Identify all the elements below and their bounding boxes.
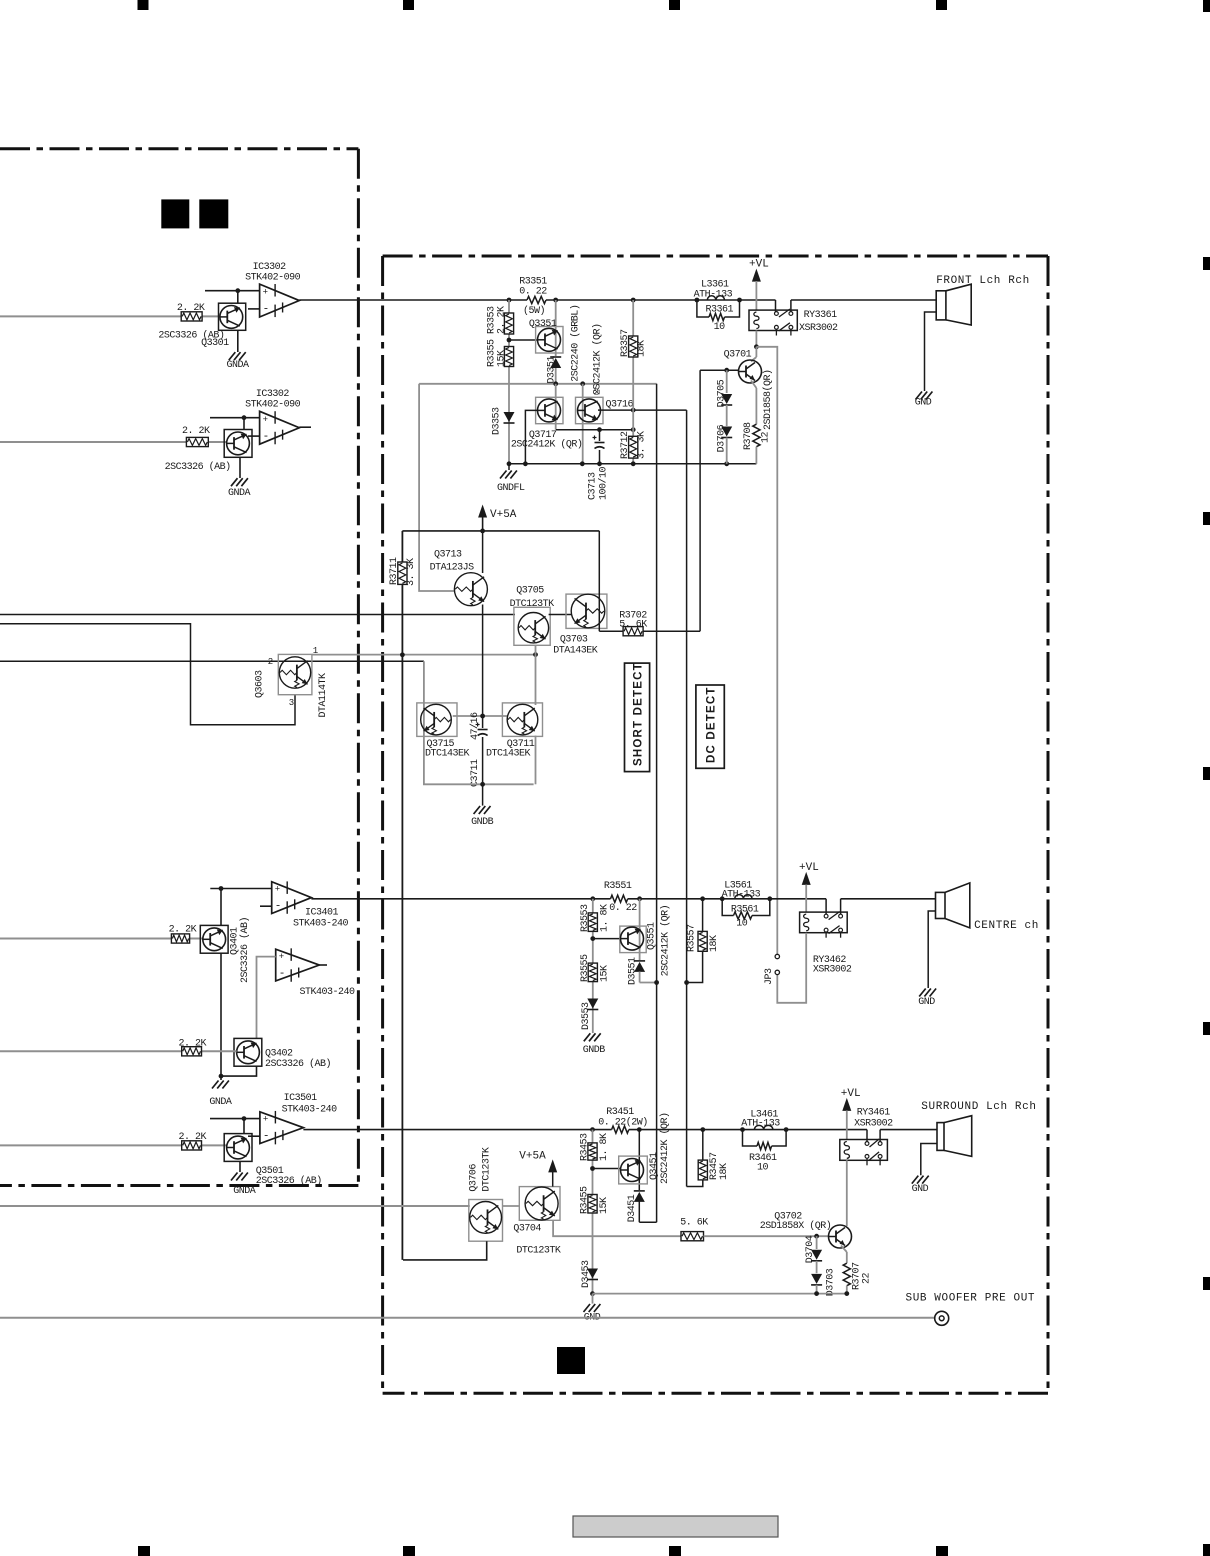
- svg-text:GNDA: GNDA: [233, 1186, 256, 1197]
- wire Q3717 base to bottom rail: [525, 410, 537, 463]
- svg-text:Q3703: Q3703: [560, 635, 588, 646]
- transistor Q3551 2SC2412K(QR): [639, 899, 641, 960]
- svg-text:R3553: R3553: [580, 904, 591, 932]
- svg-text:2SC2412K (QR): 2SC2412K (QR): [592, 323, 604, 395]
- node D3705 chain bottom: [724, 461, 729, 466]
- wire Q3706 collector to protect bus: [403, 1241, 487, 1260]
- svg-text:-: -: [263, 431, 270, 443]
- node rail/L3561 left: [720, 896, 725, 901]
- node Q3716/R3712: [631, 408, 636, 413]
- resistor R3561 10 (parallel): [722, 899, 733, 916]
- wire relay coil to Q3701 collector: [755, 331, 757, 347]
- svg-text:R3451: R3451: [606, 1107, 634, 1118]
- ground GND (centre speaker): [919, 989, 926, 997]
- svg-text:STK402-090: STK402-090: [245, 400, 301, 411]
- resistor R3711 3.3K drop: [401, 531, 403, 562]
- wire input centre: [0, 938, 171, 940]
- op-amp minus stub (IC3401): [260, 905, 272, 907]
- svg-text:DTC143EK: DTC143EK: [425, 749, 470, 760]
- svg-text:R3712: R3712: [620, 431, 631, 459]
- svg-text:+VL: +VL: [841, 1088, 861, 1100]
- svg-text:47/16: 47/16: [469, 712, 481, 740]
- node rail/D3351: [553, 298, 558, 303]
- wire base tap to Q3451: [593, 1168, 621, 1170]
- svg-text:GNDA: GNDA: [209, 1097, 232, 1108]
- wire speaker to ground: [925, 312, 937, 391]
- wire Q3706 to Q3704: [503, 1205, 520, 1207]
- wire Q3702 emitter + resistor R3707 22: [841, 1246, 847, 1253]
- svg-text:XSR3002: XSR3002: [813, 965, 852, 976]
- diode D3553: [587, 999, 598, 1009]
- wire input surround: [0, 1144, 182, 1146]
- capacitor C3711 47/16: [482, 716, 484, 728]
- surround output rail: [593, 1129, 612, 1131]
- resistor 2.2K (surround input): [182, 1141, 202, 1150]
- resistor R3553 1.8K: [588, 913, 597, 932]
- resistor 2.2K (front input): [181, 312, 202, 321]
- registration marks top edge: [138, 0, 149, 10]
- svg-text:GNDB: GNDB: [583, 1045, 606, 1056]
- speaker FRONT: [936, 291, 946, 320]
- svg-text:3. 3K: 3. 3K: [637, 431, 648, 459]
- svg-text:15K: 15K: [599, 1197, 610, 1214]
- svg-text:Q3704: Q3704: [513, 1224, 541, 1235]
- svg-text:DTC143EK: DTC143EK: [486, 749, 531, 760]
- svg-text:0. 22(2W): 0. 22(2W): [598, 1116, 648, 1128]
- wire Q3603 pin1 to detect node: [312, 654, 536, 656]
- svg-text:XSR3002: XSR3002: [799, 323, 838, 334]
- wire input front-L: [0, 315, 181, 317]
- node V+5A/Q3713: [480, 529, 485, 534]
- node rail/R3553: [590, 896, 595, 901]
- node GNDB tap: [480, 782, 485, 787]
- svg-text:2. 2K: 2. 2K: [179, 1132, 207, 1143]
- ground GNDB (front): [482, 784, 484, 805]
- svg-text:10: 10: [714, 322, 726, 333]
- svg-text:Q3551: Q3551: [647, 922, 658, 950]
- node Q3301/IC3302 +in: [235, 288, 240, 293]
- transistor Q3716 2SC2412K(QR): [576, 397, 604, 423]
- svg-text:SUB WOOFER PRE OUT: SUB WOOFER PRE OUT: [906, 1293, 1036, 1305]
- svg-text:Q3716: Q3716: [606, 400, 634, 411]
- svg-text:18K: 18K: [637, 340, 648, 357]
- capacitor C3713 100/10: [599, 430, 601, 441]
- svg-text:Q3713: Q3713: [434, 550, 462, 561]
- svg-text:GNDFL: GNDFL: [497, 483, 525, 494]
- resistor R3461 10 (parallel): [743, 1130, 758, 1146]
- node C3713 bottom: [597, 461, 602, 466]
- transistor Q3603 DTA114TK: [278, 654, 312, 694]
- svg-text:0. 22: 0. 22: [519, 287, 547, 298]
- svg-text:R3551: R3551: [604, 881, 632, 892]
- svg-text:+: +: [263, 1115, 268, 1125]
- svg-text:GNDA: GNDA: [227, 360, 250, 371]
- svg-text:+: +: [263, 288, 268, 298]
- svg-text:D3353: D3353: [492, 407, 503, 435]
- svg-text:+VL: +VL: [799, 862, 819, 874]
- wire D3451 to short-detect drop: [639, 1221, 656, 1223]
- wire IC3302 output to front rail: [299, 299, 509, 301]
- svg-text:SURROUND Lch Rch: SURROUND Lch Rch: [921, 1101, 1036, 1113]
- ground GNDA (front R): [231, 478, 238, 486]
- svg-text:C3711: C3711: [470, 759, 481, 787]
- svg-text:18K: 18K: [719, 1163, 730, 1180]
- diode D3551: [634, 962, 645, 972]
- svg-text:D3704: D3704: [805, 1235, 816, 1263]
- resistor 2.2K (Q3402 input): [182, 1047, 202, 1056]
- wire Q3501 to IC3501 +in: [210, 1118, 260, 1120]
- node R3712 mid: [631, 427, 636, 432]
- node short-detect centre: [654, 980, 659, 985]
- svg-text:D3705: D3705: [717, 379, 728, 407]
- node R3707 bottom: [844, 1291, 849, 1296]
- long detect line to Q3705: [0, 614, 515, 616]
- svg-text:D3453: D3453: [581, 1260, 592, 1288]
- svg-text:100/10: 100/10: [598, 466, 610, 500]
- svg-text:2. 2K: 2. 2K: [497, 306, 508, 334]
- dc-detect drop wire: [686, 410, 688, 1186]
- wire relay contact to speaker (surround): [879, 1130, 881, 1142]
- wire relay coil return via JP3: [777, 933, 806, 1003]
- op-amp minus stub (IC3501): [248, 1135, 260, 1137]
- svg-text:Q3351: Q3351: [529, 319, 557, 330]
- resistor R3353 2.2K: [504, 313, 513, 334]
- wire base tap to Q3551: [593, 938, 621, 940]
- wire relay coil to Q3702 collector: [846, 1160, 848, 1226]
- svg-text:V+5A: V+5A: [519, 1150, 546, 1162]
- ground GNDB (centre): [584, 1033, 591, 1041]
- detect feed to Q3706: [0, 1205, 470, 1207]
- wire Q3705 emitter down: [535, 645, 537, 654]
- svg-text:2SC2240 (GRBL): 2SC2240 (GRBL): [570, 305, 582, 382]
- label box SHORT DETECT: [625, 663, 650, 772]
- transistor 2SC3326(AB) (front R): [224, 430, 252, 458]
- node rail/L3561 right: [767, 896, 772, 901]
- transistor Q3717 2SC2412K(QR): [555, 384, 557, 430]
- svg-text:ATH-133: ATH-133: [741, 1119, 780, 1130]
- wire R3357 drop: [632, 300, 634, 336]
- resistor R3712 3.3K: [632, 410, 634, 436]
- power-amp block border (right dash-dot box): [381, 256, 384, 1393]
- centre output rail: [593, 898, 611, 900]
- node GNDA centre: [219, 1074, 224, 1079]
- wire rail into relay contact (surround): [866, 1130, 868, 1142]
- svg-text:2SC3326 (AB): 2SC3326 (AB): [256, 1175, 322, 1187]
- transistor Q3706 DTC123TK: [469, 1200, 503, 1242]
- svg-text:DTC123TK: DTC123TK: [482, 1147, 493, 1192]
- svg-text:DTA143EK: DTA143EK: [553, 646, 598, 657]
- node rail/L3461 left: [740, 1127, 745, 1132]
- node surround gnd rail: [590, 1291, 595, 1296]
- transistor Q3705 DTC123TK: [514, 607, 550, 645]
- node R3712 bottom: [631, 461, 636, 466]
- wire rail into relay contact (centre): [825, 899, 827, 914]
- wire IC3501 output to surround rail: [303, 1129, 592, 1131]
- wire node down to Q3501: [243, 1119, 245, 1134]
- svg-text:10: 10: [736, 918, 748, 929]
- svg-text:2SD1858X (QR): 2SD1858X (QR): [760, 1220, 832, 1232]
- wire Q3301 collector to op-amp input: [205, 290, 260, 292]
- node rail/L3461 right: [784, 1127, 789, 1132]
- wire Q3401 to IC3401 +in: [210, 888, 271, 890]
- wire +in down to Q3402: [257, 957, 276, 1039]
- wire Q3716 base drop: [582, 384, 584, 464]
- svg-text:R3555: R3555: [580, 954, 591, 982]
- svg-text:FRONT Lch Rch: FRONT Lch Rch: [936, 275, 1030, 287]
- diode chain D3704 D3703: [816, 1236, 818, 1249]
- svg-text:ATH-133: ATH-133: [694, 290, 733, 301]
- node rail/D3551: [637, 896, 642, 901]
- wire node down to transistor: [243, 418, 245, 430]
- svg-text:GND: GND: [918, 997, 935, 1008]
- registration marks bottom edge: [138, 1546, 150, 1556]
- transistor Q3715 DTC143EK: [417, 703, 457, 737]
- node Q3711 collector riser: [533, 652, 538, 657]
- wire mute line to Q3603 base (pin2): [0, 660, 424, 662]
- svg-text:1. 8K: 1. 8K: [599, 1133, 610, 1161]
- wire Q3402 emitter to GNDA node: [221, 1066, 257, 1076]
- node D3703 bottom: [814, 1291, 819, 1296]
- node L3361 right: [737, 298, 742, 303]
- node C3711 base tap: [480, 714, 485, 719]
- svg-text:+: +: [263, 415, 268, 425]
- resistor R3455 15K: [588, 1195, 597, 1214]
- ground GND (front speaker): [916, 392, 923, 400]
- svg-text:R3711: R3711: [389, 557, 400, 585]
- V+5A supply arrow: [478, 505, 487, 518]
- svg-text:Q3603: Q3603: [255, 670, 266, 698]
- svg-text:GND: GND: [915, 398, 932, 409]
- op-amp output stub (centre R): [319, 964, 327, 966]
- op-amp minus stub (front R): [248, 435, 260, 437]
- node base tap surround: [590, 1166, 595, 1171]
- inductor L3361 ATH-133: [707, 296, 724, 300]
- svg-text:+: +: [279, 952, 284, 962]
- svg-text:Q3705: Q3705: [516, 586, 544, 597]
- svg-text:2SC2412K (QR): 2SC2412K (QR): [660, 905, 672, 977]
- svg-text:STK402-090: STK402-090: [245, 272, 301, 283]
- svg-text:Q3706: Q3706: [469, 1164, 480, 1192]
- inductor L3561 ATH-133: [735, 895, 752, 899]
- svg-text:IC3401: IC3401: [305, 908, 339, 919]
- wire rail into relay contact: [775, 300, 777, 312]
- svg-text:R3557: R3557: [687, 924, 698, 952]
- node +in (front R): [242, 415, 247, 420]
- svg-text:Q3701: Q3701: [724, 349, 752, 360]
- wire GNDA stub: [220, 1076, 222, 1080]
- inductor L3461 ATH-133: [754, 1125, 773, 1129]
- transistor Q3451 2SC2412K(QR): [638, 1130, 640, 1190]
- svg-text:R3357: R3357: [620, 329, 631, 357]
- resistor R3457 18K drop: [702, 1130, 704, 1161]
- svg-text:STK403-240: STK403-240: [293, 919, 349, 930]
- svg-text:D3451: D3451: [627, 1194, 638, 1222]
- front local ground rail: [509, 463, 756, 465]
- svg-text:DC DETECT: DC DETECT: [706, 686, 718, 763]
- svg-text:3. 3K: 3. 3K: [406, 558, 417, 586]
- op-amp STK403-240 (centre R half): [276, 949, 320, 981]
- wire R3557 to dc-detect drop: [687, 951, 703, 982]
- ground GND (surround): [592, 1294, 594, 1304]
- svg-text:GND: GND: [912, 1184, 929, 1195]
- svg-text:12: 12: [761, 431, 772, 443]
- svg-text:2SC3326 (AB): 2SC3326 (AB): [239, 917, 251, 983]
- node rail/R3453: [590, 1127, 595, 1132]
- svg-text:IC3501: IC3501: [284, 1093, 318, 1104]
- surround protect ground wire: [593, 1293, 847, 1295]
- svg-text:2SD1858(QR): 2SD1858(QR): [762, 369, 774, 430]
- wire IC3401 output to centre rail: [311, 898, 592, 900]
- node rail/R3557: [700, 896, 705, 901]
- wire R3453 chain: [592, 1130, 594, 1143]
- ground GNDA (surround): [231, 1173, 238, 1181]
- transistor Q3501 2SC3326(AB): [224, 1134, 252, 1162]
- resistor R3355 15K: [504, 347, 513, 367]
- resistor R3555 15K: [588, 963, 597, 982]
- wire Q3301 emitter to ground: [237, 330, 239, 352]
- svg-text:2. 2K: 2. 2K: [177, 303, 205, 314]
- wire speaker to ground (centre): [928, 911, 935, 988]
- svg-text:2: 2: [594, 388, 599, 398]
- diode D3453: [587, 1269, 598, 1279]
- wire Q3401 emitter down to GNDA node: [220, 953, 222, 1076]
- speaker SURROUND: [937, 1123, 944, 1151]
- transistor Q3713 DTA123JS: [482, 531, 484, 573]
- svg-text:GNDB: GNDB: [471, 817, 494, 828]
- node rail/R3357: [631, 298, 636, 303]
- svg-text:22: 22: [862, 1272, 873, 1284]
- diode D3353: [504, 412, 515, 422]
- ground GNDA (Q3301): [229, 352, 236, 360]
- svg-text:2. 2K: 2. 2K: [179, 1039, 207, 1050]
- svg-text:10: 10: [757, 1162, 769, 1173]
- transistor Q3704 DTC123TK: [519, 1187, 560, 1221]
- wire relay contact to speaker (centre): [840, 899, 842, 914]
- wire Q3701 collector stub: [755, 347, 757, 357]
- svg-text:IC3302: IC3302: [253, 262, 287, 273]
- svg-text:STK403-240: STK403-240: [300, 987, 356, 998]
- svg-text:-: -: [263, 1131, 270, 1143]
- node Q3716 base rail: [580, 461, 585, 466]
- svg-text:C3713: C3713: [588, 472, 599, 500]
- svg-text:GNDA: GNDA: [228, 488, 251, 499]
- svg-text:ATH-133: ATH-133: [722, 890, 761, 901]
- transistor Q3301 2SC3326(AB): [219, 303, 246, 330]
- node IC3401 +in: [219, 886, 224, 891]
- wire to op-amp input (front R): [210, 417, 260, 419]
- transistor Q3711 DTC143EK: [502, 703, 542, 737]
- svg-text:D3703: D3703: [826, 1268, 837, 1296]
- label box DC DETECT: [696, 685, 724, 768]
- node Q3717 base rail: [523, 461, 528, 466]
- svg-text:2. 2K: 2. 2K: [182, 426, 210, 437]
- svg-text:D3551: D3551: [628, 957, 639, 985]
- resistor 2.2K (centre input): [171, 934, 189, 943]
- ground GNDFL: [508, 464, 510, 470]
- subwoofer line: [0, 1317, 935, 1319]
- diode D3451: [634, 1192, 645, 1202]
- wire Q3704 output to 5.6K: [553, 1220, 681, 1236]
- svg-text:D3351: D3351: [547, 356, 558, 384]
- svg-text:JP3: JP3: [764, 968, 775, 985]
- wire IC3302-2 output stub: [299, 426, 311, 428]
- node base/D3705: [724, 368, 729, 373]
- svg-text:CENTRE ch: CENTRE ch: [974, 920, 1039, 932]
- resistor R3551 0.22: [611, 895, 628, 902]
- svg-text:1. 8K: 1. 8K: [600, 904, 611, 932]
- op-amp IC3401 STK403-240: [272, 882, 312, 914]
- svg-text:Q3402: Q3402: [265, 1049, 293, 1060]
- node L3361 left: [695, 298, 700, 303]
- registration marks right edge: [1203, 257, 1210, 270]
- svg-text:D3553: D3553: [581, 1002, 592, 1030]
- svg-text:2. 2K: 2. 2K: [169, 925, 197, 936]
- transistor Q3351 2SC2240(GRBL): [555, 300, 557, 356]
- wire R3702 to Q3701 base: [699, 370, 701, 631]
- resistor R3451 0.22 2W: [612, 1126, 629, 1133]
- wire node down to Q3401: [220, 889, 222, 926]
- wire R3553 chain: [592, 899, 594, 913]
- op-amp IC3501 STK403-240: [260, 1112, 304, 1144]
- node R3353/R3355 base tap: [507, 338, 512, 343]
- svg-text:XSR3002: XSR3002: [854, 1119, 893, 1130]
- wire R3457 to dc-detect drop: [687, 1180, 703, 1187]
- wire Q3703 emitter to V+5A rail / R3702: [598, 531, 600, 631]
- wire speaker to ground (surround): [921, 1144, 937, 1176]
- wire D3551 to short-detect drop: [640, 982, 657, 984]
- svg-text:R3708: R3708: [743, 422, 754, 450]
- node C3713 top: [597, 427, 602, 432]
- front output rail: [509, 299, 527, 301]
- wire relay contact to speaker rail: [790, 300, 792, 312]
- wire node to Q3301: [237, 291, 239, 304]
- relay RY3361 XSR3002: [749, 310, 797, 330]
- transistor Q3702 2SD1858X(QR): [829, 1225, 852, 1248]
- emitter junction wire: [556, 429, 633, 431]
- wire pin3 return loop: [0, 624, 295, 725]
- node dc-detect centre: [684, 980, 689, 985]
- wire Q3711 collector riser: [535, 736, 537, 785]
- wire input front-R: [0, 441, 186, 443]
- resistor R3702 5.6K: [599, 630, 623, 632]
- svg-text:2SC3326 (AB): 2SC3326 (AB): [165, 461, 231, 473]
- svg-text:0. 22: 0. 22: [609, 903, 637, 914]
- svg-text:DTC123TK: DTC123TK: [510, 599, 555, 610]
- transistor Q3701 2SD1858(QR): [739, 360, 762, 383]
- node rail/D3451: [637, 1127, 642, 1132]
- svg-text:+: +: [275, 885, 280, 895]
- ground GND (surround speaker): [912, 1176, 919, 1184]
- node feedback/D3351: [553, 381, 558, 386]
- svg-text:3: 3: [289, 698, 294, 708]
- svg-text:D3706: D3706: [717, 424, 728, 452]
- svg-text:DTA114TK: DTA114TK: [318, 673, 329, 718]
- node GNDFL: [507, 461, 512, 466]
- svg-text:DTC123TK: DTC123TK: [516, 1246, 561, 1257]
- svg-text:2SC3326 (AB): 2SC3326 (AB): [265, 1058, 331, 1070]
- node R3711 bottom: [400, 652, 405, 657]
- speaker CENTRE: [936, 892, 946, 918]
- svg-text:(5W): (5W): [523, 305, 545, 317]
- pre-amp block border (left dash-dot box): [0, 147, 358, 150]
- feedback wire (front): [419, 383, 656, 385]
- svg-text:Q3451: Q3451: [649, 1152, 660, 1180]
- resistor R3351 0.22 5W: [527, 296, 546, 303]
- wire emitter to ground (front R): [239, 457, 241, 478]
- svg-text:5. 6K: 5. 6K: [680, 1217, 708, 1228]
- svg-text:5. 6K: 5. 6K: [619, 619, 647, 630]
- wire Q3705 to Q3703: [549, 614, 572, 616]
